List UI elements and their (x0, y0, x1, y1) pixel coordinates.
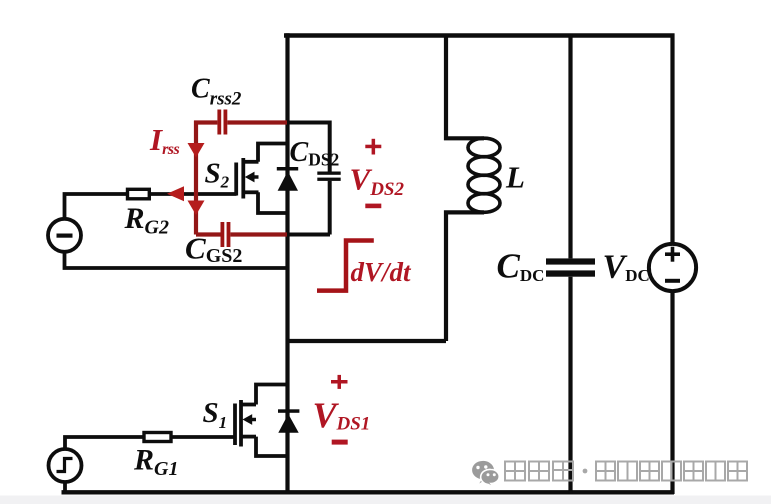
inductor branch wire (top) (446, 34, 484, 139)
wire: red C_rss2 to drain line (227, 120, 287, 124)
red arrow down (lower, on gate node) (188, 201, 205, 216)
wire: red gate node vertical (194, 121, 198, 235)
body diode S2 (277, 167, 298, 191)
resistor R_G1 (144, 433, 171, 442)
voltage source V_DC (649, 244, 696, 291)
wire: R_G2 to S2 gate (149, 192, 236, 196)
wire: S2 drain connection (258, 144, 288, 162)
bottom gray strip (0, 496, 771, 504)
V_DS1 plus sign (red) (331, 375, 348, 389)
wire: red C_rss2 top (left of cap) (194, 120, 217, 124)
wire: R_G1 to S1 gate (171, 435, 235, 439)
capacitor C_GS2 (221, 222, 231, 247)
gate drive source (S1, pulse) (49, 449, 82, 482)
wire: C_DS2 branch (black) (287, 123, 330, 235)
wire: red C_GS2 to drain line (231, 232, 288, 236)
MOSFET S2 (236, 158, 258, 199)
red arrow left (into R_G2) (167, 186, 184, 201)
capacitor C_DC (546, 258, 595, 276)
wire: S1 source connection (256, 437, 288, 456)
svg-text:L: L (505, 159, 525, 194)
svg-text:dV/dt: dV/dt (351, 257, 413, 287)
bottom rail wire (62, 490, 675, 494)
inductor L coil (468, 138, 500, 212)
V_DS2 plus sign (red) (365, 139, 381, 155)
watermark text (gray CJK glyph blocks) (505, 462, 747, 481)
body diode S1 (278, 409, 299, 432)
wire: S2 gate drive bottom (65, 252, 288, 268)
inductor branch wire (bottom) (446, 212, 484, 341)
V_DS1 minus sign (red) (332, 440, 348, 445)
resistor R_G2 (128, 189, 150, 199)
V_DC branch wire (670, 34, 674, 495)
wire: S2 gate drive top (65, 194, 128, 219)
dV/dt step symbol (red) (317, 241, 374, 291)
wire: S1 drain connection (256, 385, 288, 405)
wire: S1 gate drive bottom (63, 482, 67, 492)
capacitor C_DS2 (317, 172, 340, 181)
wire: S1 gate drive top (65, 437, 144, 449)
capacitor C_rss2 (217, 110, 227, 135)
red arrow down (upper, on gate node) (188, 143, 205, 158)
wire: S2 source connection (258, 192, 288, 213)
MOSFET S1 (235, 400, 256, 447)
switch node wire (286, 339, 447, 343)
main vertical wire (half-bridge drain line) (285, 33, 289, 494)
wire: red C_GS2 left (196, 232, 221, 236)
watermark wechat icon (472, 461, 499, 488)
gate drive source (S2, minus) (48, 219, 81, 252)
top rail wire (284, 33, 675, 37)
C_DC branch wire (568, 34, 572, 495)
V_DS2 minus sign (red) (365, 204, 381, 209)
